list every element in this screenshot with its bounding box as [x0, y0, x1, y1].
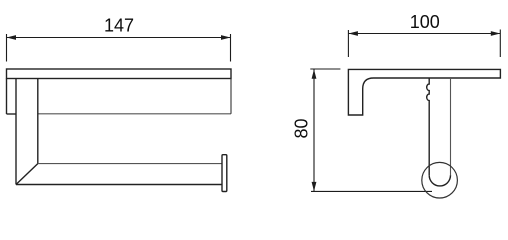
extension line left	[347, 30, 349, 57]
wall plate left edge	[6, 79, 8, 115]
post right edge	[37, 79, 39, 164]
svg-text:80: 80	[292, 118, 312, 138]
dimension line 100	[348, 31, 500, 36]
wall plate bottom	[7, 113, 17, 115]
dimension line 80	[312, 69, 317, 191]
extension line left	[6, 34, 8, 62]
back panel right edge	[230, 79, 232, 114]
extension line top	[310, 68, 340, 70]
roll bar top edge	[38, 163, 222, 165]
extension line bottom	[311, 190, 432, 192]
svg-text:147: 147	[104, 16, 134, 36]
extension line right	[499, 30, 501, 58]
dimension line 147	[7, 35, 231, 40]
svg-text:100: 100	[410, 12, 440, 32]
rod end U	[429, 175, 450, 186]
extension line right	[230, 34, 232, 62]
shelf slab	[7, 69, 232, 79]
rod right edge	[450, 78, 452, 175]
bracket outline (shelf + wall arm with fillet)	[348, 69, 500, 115]
back panel bottom edge	[38, 113, 231, 115]
roll bar bottom edge	[16, 184, 222, 186]
end cap	[222, 155, 227, 192]
outer circle	[422, 162, 458, 198]
post left edge	[15, 79, 17, 185]
corner diagonal	[16, 164, 38, 185]
rod left edge	[427, 78, 430, 175]
